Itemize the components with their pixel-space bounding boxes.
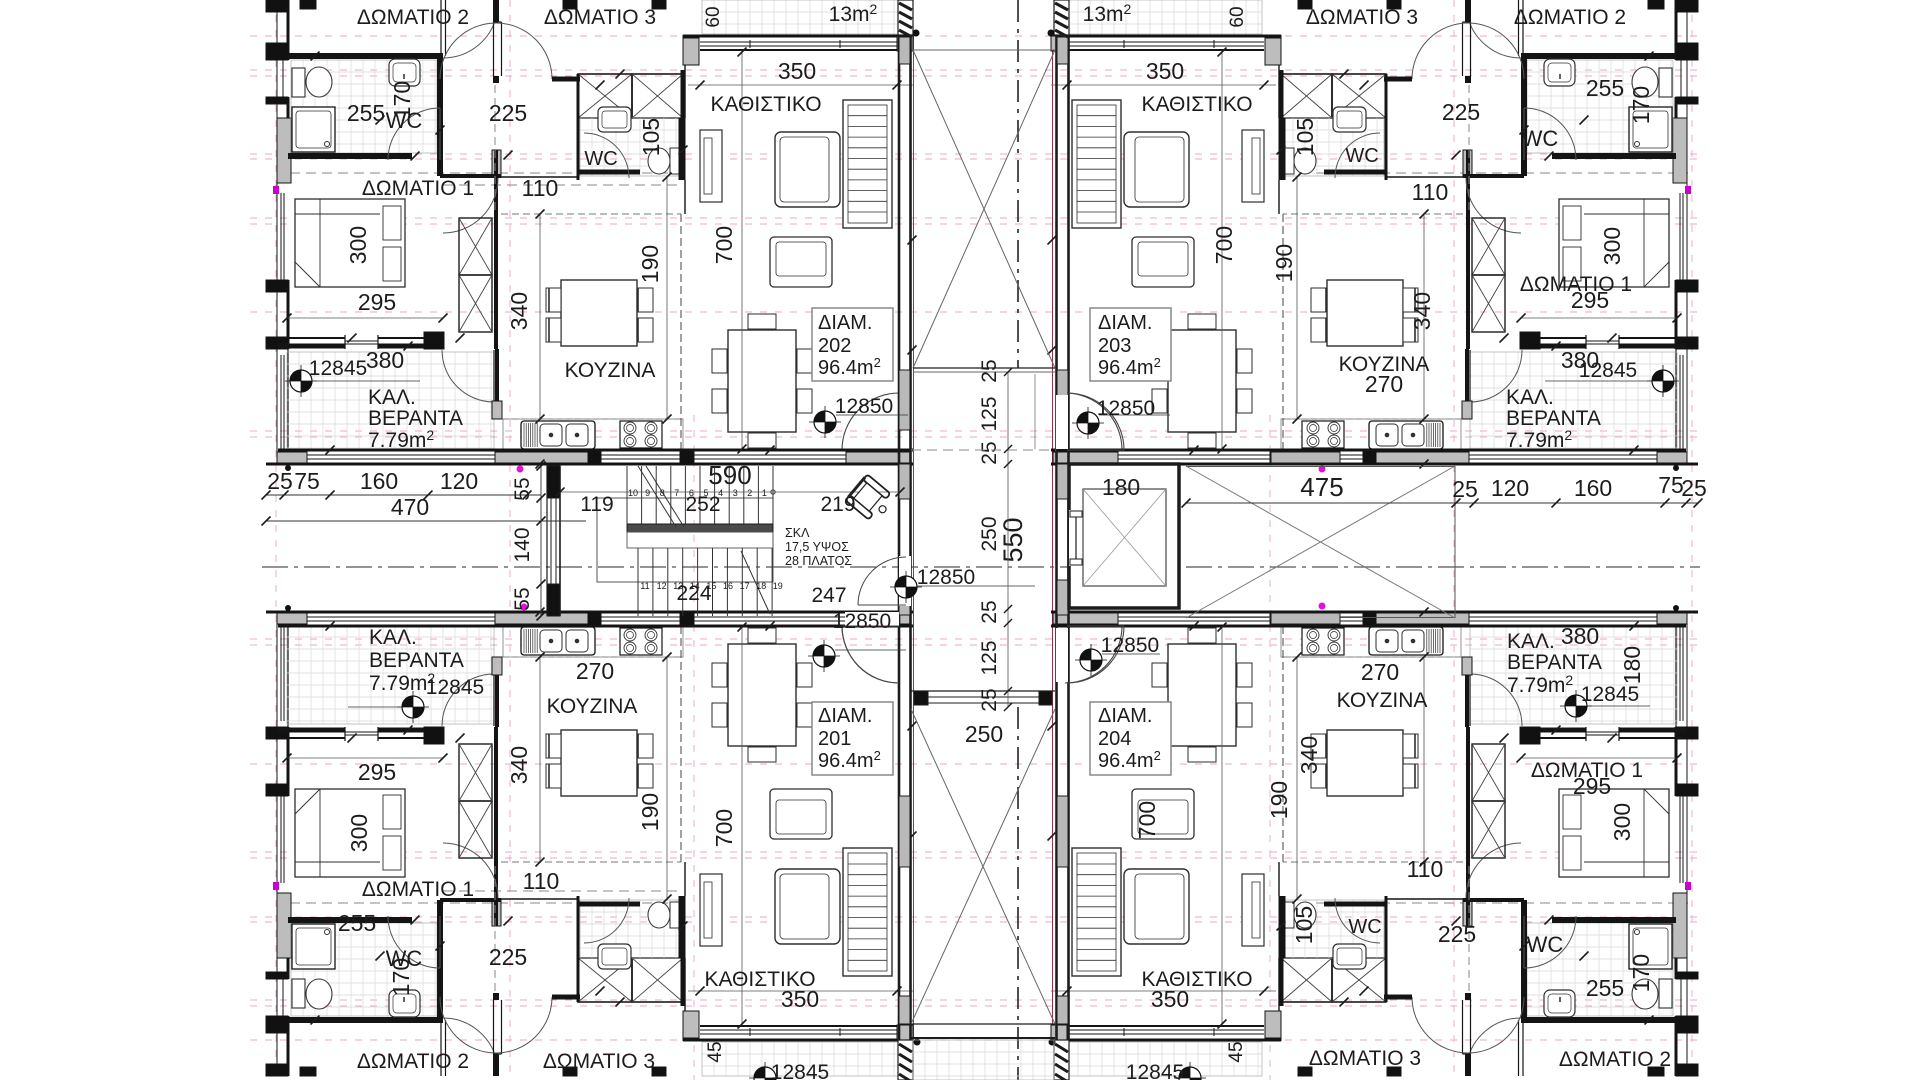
stair top dim line <box>560 491 900 493</box>
svg-text:120: 120 <box>440 468 478 494</box>
closet link wall <box>552 995 580 1000</box>
south band wall <box>1051 449 1686 452</box>
toilet WC1 <box>1659 68 1672 97</box>
svg-text:350: 350 <box>1146 58 1184 84</box>
svg-text:300: 300 <box>1609 803 1635 841</box>
kitchen stove <box>620 421 662 448</box>
svg-text:19: 19 <box>773 581 783 591</box>
svg-text:45: 45 <box>705 1041 726 1062</box>
stair up arrow <box>741 551 770 614</box>
svg-text:ΔΩΜΑΤΙΟ 1: ΔΩΜΑΤΙΟ 1 <box>362 878 474 901</box>
dim line 340 kitchen <box>539 214 541 419</box>
svg-text:250: 250 <box>965 721 1003 747</box>
svg-text:295: 295 <box>1573 773 1611 799</box>
dim line 190 kitchen <box>666 657 668 899</box>
red section lines <box>913 35 915 1040</box>
stair landing <box>627 524 773 532</box>
hall bottom wall <box>440 898 501 902</box>
door arc bedroom3 <box>440 23 496 79</box>
kitchen stove <box>620 628 662 655</box>
svg-text:ΒΕΡΑΝΤΑ: ΒΕΡΑΝΤΑ <box>368 407 463 430</box>
svg-text:255: 255 <box>338 910 376 936</box>
svg-text:350: 350 <box>778 58 816 84</box>
WC2 tiles <box>1281 118 1384 176</box>
marker apt 202 <box>809 406 841 438</box>
svg-text:ΚΟΥΖΙΝΑ: ΚΟΥΖΙΝΑ <box>547 695 638 718</box>
magenta node dots <box>517 466 524 473</box>
svg-text:590: 590 <box>708 460 751 490</box>
WC outer walls <box>1521 1017 1676 1023</box>
entrance tiles <box>913 1040 1054 1080</box>
door arc bedroom1 <box>443 843 498 898</box>
svg-text:201: 201 <box>818 728 851 750</box>
bed bedroom1 <box>1559 789 1669 877</box>
svg-text:295: 295 <box>358 759 396 785</box>
svg-text:17,5 ΥΨΟΣ: 17,5 ΥΨΟΣ <box>785 540 849 554</box>
svg-text:96.4m2: 96.4m2 <box>818 355 881 379</box>
svg-text:12: 12 <box>657 581 667 591</box>
svg-text:96.4m2: 96.4m2 <box>1098 355 1161 379</box>
door leaf bedroom3 <box>1470 22 1472 76</box>
svg-text:25: 25 <box>1681 475 1707 501</box>
living north wall + window <box>1051 1039 1281 1042</box>
WC2 toilet <box>1281 148 1294 174</box>
svg-text:60: 60 <box>1227 6 1248 27</box>
marker stair <box>890 571 922 603</box>
closet link wall <box>1384 77 1412 82</box>
WC outer walls <box>1521 53 1676 59</box>
dim line 340 kitchen <box>1423 214 1425 419</box>
balcony tiles above living <box>702 0 898 34</box>
svg-text:105: 105 <box>1292 118 1318 156</box>
WC2 door arc <box>1335 898 1380 943</box>
svg-text:255: 255 <box>1586 975 1624 1001</box>
shower WC1 <box>292 107 335 152</box>
basin WC1 <box>1544 990 1575 1017</box>
veranda door leaf+arc <box>493 350 495 403</box>
svg-text:ΚΟΥΖΙΝΑ: ΚΟΥΖΙΝΑ <box>1337 689 1428 712</box>
apartment entry door <box>1065 449 1119 464</box>
WC2 basin <box>598 944 631 969</box>
WC2 basin <box>598 107 631 132</box>
ticks on walls <box>1580 952 1589 961</box>
svg-text:ΒΕΡΑΝΤΑ: ΒΕΡΑΝΤΑ <box>369 649 464 672</box>
svg-text:170: 170 <box>389 81 415 119</box>
svg-text:9: 9 <box>645 488 650 498</box>
svg-text:160: 160 <box>360 468 398 494</box>
svg-text:7.79m2: 7.79m2 <box>368 427 434 452</box>
corridor west wall <box>898 35 901 1040</box>
bookshelf <box>1072 100 1121 228</box>
svg-text:247: 247 <box>811 584 846 607</box>
door leaf bedroom3 <box>493 22 495 76</box>
WC2 tiles <box>580 900 683 958</box>
apartment entry door <box>845 449 899 464</box>
bottom shaft top wall <box>911 690 1055 692</box>
dining table <box>1168 330 1236 432</box>
tv unit <box>700 130 722 202</box>
svg-text:11: 11 <box>640 581 649 591</box>
dim line 295 bedroom1 <box>287 757 443 759</box>
hidden line hall <box>1468 85 1470 214</box>
svg-text:12845: 12845 <box>309 357 367 380</box>
WC2 basin <box>1333 944 1366 969</box>
WC2 walls <box>577 74 580 180</box>
svg-text:340: 340 <box>1409 292 1435 330</box>
door arc bedroom1 <box>1466 178 1521 233</box>
svg-text:252: 252 <box>685 493 720 516</box>
WC bathroom outer: tiles <box>1527 60 1673 153</box>
svg-text:WC: WC <box>1345 145 1378 167</box>
svg-text:ΔΙΑΜ.: ΔΙΑΜ. <box>1098 312 1152 334</box>
node dot <box>1673 605 1679 611</box>
svg-text:300: 300 <box>1599 227 1625 265</box>
south band wall <box>1051 625 1686 628</box>
WC bathroom outer: tiles <box>1527 923 1673 1016</box>
living north wall + window <box>683 1039 913 1042</box>
markers verandas 12845 <box>285 365 317 397</box>
west wall node <box>1685 882 1691 890</box>
svg-text:25: 25 <box>978 441 1001 464</box>
svg-text:110: 110 <box>523 868 560 894</box>
elevator door <box>1069 510 1073 566</box>
svg-text:ΔΩΜΑΤΙΟ 2: ΔΩΜΑΤΙΟ 2 <box>357 1050 469 1073</box>
pier west wall <box>277 893 291 958</box>
svg-text:12850: 12850 <box>917 566 975 589</box>
wheelchair <box>846 474 897 524</box>
wall kitchen/living <box>683 35 688 65</box>
wall hall/bedroom1 <box>494 727 498 926</box>
hidden line hall <box>1468 862 1470 991</box>
door arc bedroom2 top <box>1467 1018 1521 1063</box>
outer west wall <box>276 0 278 465</box>
WC outer walls <box>288 1017 443 1023</box>
WC2 tiles <box>1281 900 1384 958</box>
svg-text:75: 75 <box>294 468 320 494</box>
closet X bedroom3 <box>1332 958 1386 1002</box>
wall bedroom2/3 divider <box>493 1054 499 1076</box>
top edge stubs <box>300 0 316 9</box>
door arc WC1 <box>1524 108 1576 160</box>
entrance hatch blocks bottom <box>898 1040 913 1080</box>
closet link wall <box>1384 995 1412 1000</box>
bedroom1 south wall <box>278 737 345 739</box>
closet X bedroom3 <box>1332 74 1386 118</box>
dim line 295 bedroom1 <box>287 317 443 319</box>
svg-text:96.4m2: 96.4m2 <box>1098 748 1161 772</box>
dining table <box>1168 644 1236 746</box>
WC2 toilet <box>1281 902 1294 928</box>
svg-text:190: 190 <box>1266 781 1292 819</box>
dim line 190 kitchen <box>1296 657 1298 899</box>
pink grid lines vertical <box>275 0 277 1080</box>
wall bedroom2/3 divider <box>493 0 499 22</box>
pier west wall <box>1673 118 1687 183</box>
svg-text:12845: 12845 <box>1126 1061 1184 1080</box>
svg-text:10: 10 <box>628 488 638 498</box>
armchair <box>770 237 832 287</box>
svg-text:125: 125 <box>978 640 1001 675</box>
dining table <box>728 644 796 746</box>
door arc WC1 <box>1524 916 1576 968</box>
piers corridor walls <box>899 37 910 64</box>
svg-text:110: 110 <box>1412 179 1449 205</box>
stair flight box <box>597 498 773 582</box>
svg-text:110: 110 <box>1407 856 1444 882</box>
dim line 700 living <box>741 52 743 449</box>
svg-text:ΔΩΜΑΤΙΟ 3: ΔΩΜΑΤΙΟ 3 <box>1306 6 1418 29</box>
door arc WC1 <box>388 916 440 968</box>
kitchen sink unit <box>1369 421 1443 449</box>
toilet WC1 <box>292 979 305 1008</box>
WC2 walls <box>577 896 580 1002</box>
tv unit <box>1242 130 1264 202</box>
svg-text:170: 170 <box>1628 86 1654 124</box>
WC outer walls <box>288 53 443 59</box>
kitchen counter <box>1281 418 1461 420</box>
wall veranda/kitchen <box>495 657 499 727</box>
svg-text:ΔΩΜΑΤΙΟ 1: ΔΩΜΑΤΙΟ 1 <box>362 177 474 200</box>
WC bathroom outer: tiles <box>291 923 437 1016</box>
door arc bedroom2 top <box>443 13 497 58</box>
svg-text:225: 225 <box>489 944 527 970</box>
kitchen sink unit <box>521 421 595 449</box>
door arc bedroom1 <box>443 178 498 233</box>
door arc bedroom3 <box>440 997 496 1053</box>
wall veranda/kitchen <box>1465 349 1469 419</box>
ticks on walls <box>1580 116 1589 125</box>
door arc bedroom1 <box>1466 843 1521 898</box>
south band wall <box>278 449 913 452</box>
svg-text:475: 475 <box>1300 472 1343 502</box>
svg-text:340: 340 <box>506 746 532 784</box>
door arc WC1 <box>388 108 440 160</box>
kitchen table + chairs <box>561 730 637 796</box>
svg-text:28 ΠΛΑΤΟΣ: 28 ΠΛΑΤΟΣ <box>785 554 852 568</box>
dim line 700 living <box>1221 52 1223 449</box>
living north wall + window <box>1051 35 1281 38</box>
kitchen north boundary <box>443 176 578 178</box>
WC2 door arc <box>584 898 629 943</box>
pink grid lines horizontal <box>250 35 1700 37</box>
armchair <box>1132 789 1194 839</box>
dim line 340 kitchen <box>539 657 541 862</box>
corridor east wall <box>1055 35 1058 1040</box>
extra band piers <box>1271 452 1340 463</box>
svg-text:700: 700 <box>711 809 737 847</box>
wall kitchen/living <box>683 1011 688 1041</box>
gray hidden lines horizontal <box>290 172 680 174</box>
svg-text:202: 202 <box>818 335 851 357</box>
basin WC1 <box>389 990 420 1017</box>
node dot <box>285 605 291 611</box>
svg-text:ΚΑΘΙΣΤΙΚΟ: ΚΑΘΙΣΤΙΚΟ <box>710 93 821 116</box>
svg-text:ΔΩΜΑΤΙΟ 3: ΔΩΜΑΤΙΟ 3 <box>544 6 656 29</box>
wall bedroom2/3 divider <box>1465 1054 1471 1076</box>
WC2 basin <box>1333 107 1366 132</box>
wall veranda/kitchen <box>495 349 499 419</box>
svg-text:125: 125 <box>978 396 1001 431</box>
left band vertical dim 55/140/55 <box>540 466 542 616</box>
svg-text:300: 300 <box>345 226 371 264</box>
door arc bedroom2 top <box>443 1018 497 1063</box>
kitchen stove <box>1302 421 1344 448</box>
node dot <box>285 465 291 471</box>
svg-text:25: 25 <box>267 468 293 494</box>
bedroom1 south wall <box>1619 337 1686 339</box>
dim line 295 bedroom1 <box>1521 757 1677 759</box>
bedroom1 south wall <box>278 337 345 339</box>
WC2 door arc <box>584 133 629 178</box>
svg-text:55: 55 <box>511 477 534 500</box>
bookshelf <box>843 100 892 228</box>
armchair <box>1132 237 1194 287</box>
svg-text:ΚΑΛ.: ΚΑΛ. <box>369 626 417 649</box>
hatch blocks top <box>898 0 913 35</box>
svg-text:ΔΙΑΜ.: ΔΙΑΜ. <box>818 312 872 334</box>
kitchen table + chairs <box>1327 730 1403 796</box>
svg-text:1: 1 <box>762 488 767 498</box>
bookshelf <box>1072 848 1121 976</box>
veranda door leaf+arc <box>1469 673 1471 726</box>
outer west wall <box>1686 0 1688 465</box>
svg-text:180: 180 <box>1102 474 1140 500</box>
svg-text:12850: 12850 <box>835 395 893 418</box>
svg-text:WC: WC <box>1522 126 1559 151</box>
apartment entry door <box>1065 612 1119 627</box>
svg-text:ΔΩΜΑΤΙΟ 2: ΔΩΜΑΤΙΟ 2 <box>1559 1048 1671 1071</box>
wall kitchen/living <box>1277 1011 1282 1041</box>
svg-text:110: 110 <box>522 175 559 201</box>
svg-text:550: 550 <box>998 517 1028 562</box>
wall bedroom2/3 divider <box>1465 0 1471 22</box>
bottom shaft south wall <box>911 1023 1055 1025</box>
svg-text:17: 17 <box>740 581 750 591</box>
bed bedroom1 <box>295 199 405 287</box>
pier west wall <box>277 118 291 183</box>
svg-text:120: 120 <box>1491 475 1529 501</box>
svg-text:295: 295 <box>1571 287 1609 313</box>
shower WC1 <box>1629 107 1672 152</box>
wardrobe bedroom1 X-boxes <box>1472 218 1505 275</box>
outer west wall <box>276 611 278 1076</box>
svg-text:ΒΕΡΑΝΤΑ: ΒΕΡΑΝΤΑ <box>1507 651 1602 674</box>
bookshelf <box>843 848 892 976</box>
toilet WC1 <box>292 68 305 97</box>
svg-text:119: 119 <box>580 493 613 516</box>
svg-text:WC: WC <box>584 148 617 170</box>
sofa <box>1124 132 1189 207</box>
ticks on walls <box>376 952 385 961</box>
svg-text:ΒΕΡΑΝΤΑ: ΒΕΡΑΝΤΑ <box>1506 407 1601 430</box>
svg-text:8: 8 <box>660 488 665 498</box>
sofa <box>775 869 840 944</box>
bottom light well X <box>911 709 1055 1024</box>
wall veranda/kitchen <box>1465 657 1469 727</box>
svg-text:12845: 12845 <box>1581 683 1639 706</box>
kitchen north boundary <box>1386 176 1521 178</box>
svg-text:WC: WC <box>1527 932 1564 957</box>
svg-text:25: 25 <box>978 359 1001 382</box>
svg-text:295: 295 <box>358 289 396 315</box>
kitchen table + chairs <box>561 280 637 346</box>
hall bottom wall <box>440 174 501 178</box>
svg-text:255: 255 <box>347 100 385 126</box>
sofa <box>775 132 840 207</box>
svg-text:25: 25 <box>978 688 1001 711</box>
tv unit <box>700 874 722 946</box>
svg-text:7.79m2: 7.79m2 <box>1506 427 1572 452</box>
svg-text:12850: 12850 <box>1097 397 1155 420</box>
svg-text:270: 270 <box>1361 659 1399 685</box>
shower WC1 <box>292 924 335 969</box>
dim line 190 kitchen <box>1296 177 1298 419</box>
WC2 door arc <box>1335 133 1380 178</box>
hidden line hall <box>494 85 496 214</box>
dim line 340 kitchen <box>1423 657 1425 862</box>
marker corridor top <box>1072 407 1104 439</box>
hidden line hall <box>494 862 496 991</box>
ticks on walls <box>376 116 385 125</box>
closet X bedroom3 <box>578 958 632 1002</box>
veranda tiles <box>287 625 494 724</box>
svg-text:45: 45 <box>1226 1041 1247 1062</box>
living north wall + window <box>683 35 913 38</box>
svg-text:12845: 12845 <box>1579 359 1637 382</box>
dim line 700 living <box>741 627 743 1024</box>
kitchen sink unit <box>521 627 595 655</box>
svg-text:470: 470 <box>391 494 429 520</box>
WC2 toilet <box>670 902 683 928</box>
svg-text:170: 170 <box>1628 954 1654 992</box>
closet X bedroom3 <box>578 74 632 118</box>
WC2 tiles <box>580 118 683 176</box>
svg-text:ΔΩΜΑΤΙΟ 2: ΔΩΜΑΤΙΟ 2 <box>1514 6 1626 29</box>
wall hall/bedroom1 <box>494 150 498 349</box>
axis dash-dot vertical entrance <box>1017 0 1019 368</box>
svg-text:105: 105 <box>1291 906 1317 944</box>
WC2 walls <box>1385 74 1388 180</box>
balcony tiles above living <box>1066 0 1262 34</box>
west wall node <box>1685 186 1691 194</box>
svg-text:255: 255 <box>1586 75 1624 101</box>
kitchen stove <box>1302 628 1344 655</box>
kitchen counter <box>1281 656 1461 658</box>
dim line 295 bedroom1 <box>1521 317 1677 319</box>
west wall node <box>273 882 279 890</box>
svg-text:ΚΑΛ.: ΚΑΛ. <box>368 386 416 409</box>
pier hall wall <box>492 900 501 926</box>
markers bottom corridor <box>808 640 840 672</box>
svg-text:190: 190 <box>637 793 663 831</box>
svg-text:700: 700 <box>1211 226 1237 264</box>
svg-text:ΚΟΥΖΙΝΑ: ΚΟΥΖΙΝΑ <box>565 359 656 382</box>
door arc bedroom3 <box>1468 997 1524 1053</box>
wall hall/bedroom1 <box>1466 150 1470 349</box>
svg-text:ΣΚΛ: ΣΚΛ <box>785 526 810 540</box>
veranda tiles <box>1470 352 1677 451</box>
basin WC1 <box>1544 59 1575 86</box>
armchair <box>770 789 832 839</box>
svg-text:340: 340 <box>1296 736 1322 774</box>
wall hall/bedroom1 <box>1466 727 1470 926</box>
svg-text:ΔΩΜΑΤΙΟ 3: ΔΩΜΑΤΙΟ 3 <box>543 1050 655 1073</box>
svg-text:225: 225 <box>1442 99 1480 125</box>
kitchen counter <box>503 418 683 420</box>
kitchen table + chairs <box>1327 280 1403 346</box>
svg-text:ΚΑΘΙΣΤΙΚΟ: ΚΑΘΙΣΤΙΚΟ <box>1141 93 1252 116</box>
veranda door leaf+arc <box>493 673 495 726</box>
